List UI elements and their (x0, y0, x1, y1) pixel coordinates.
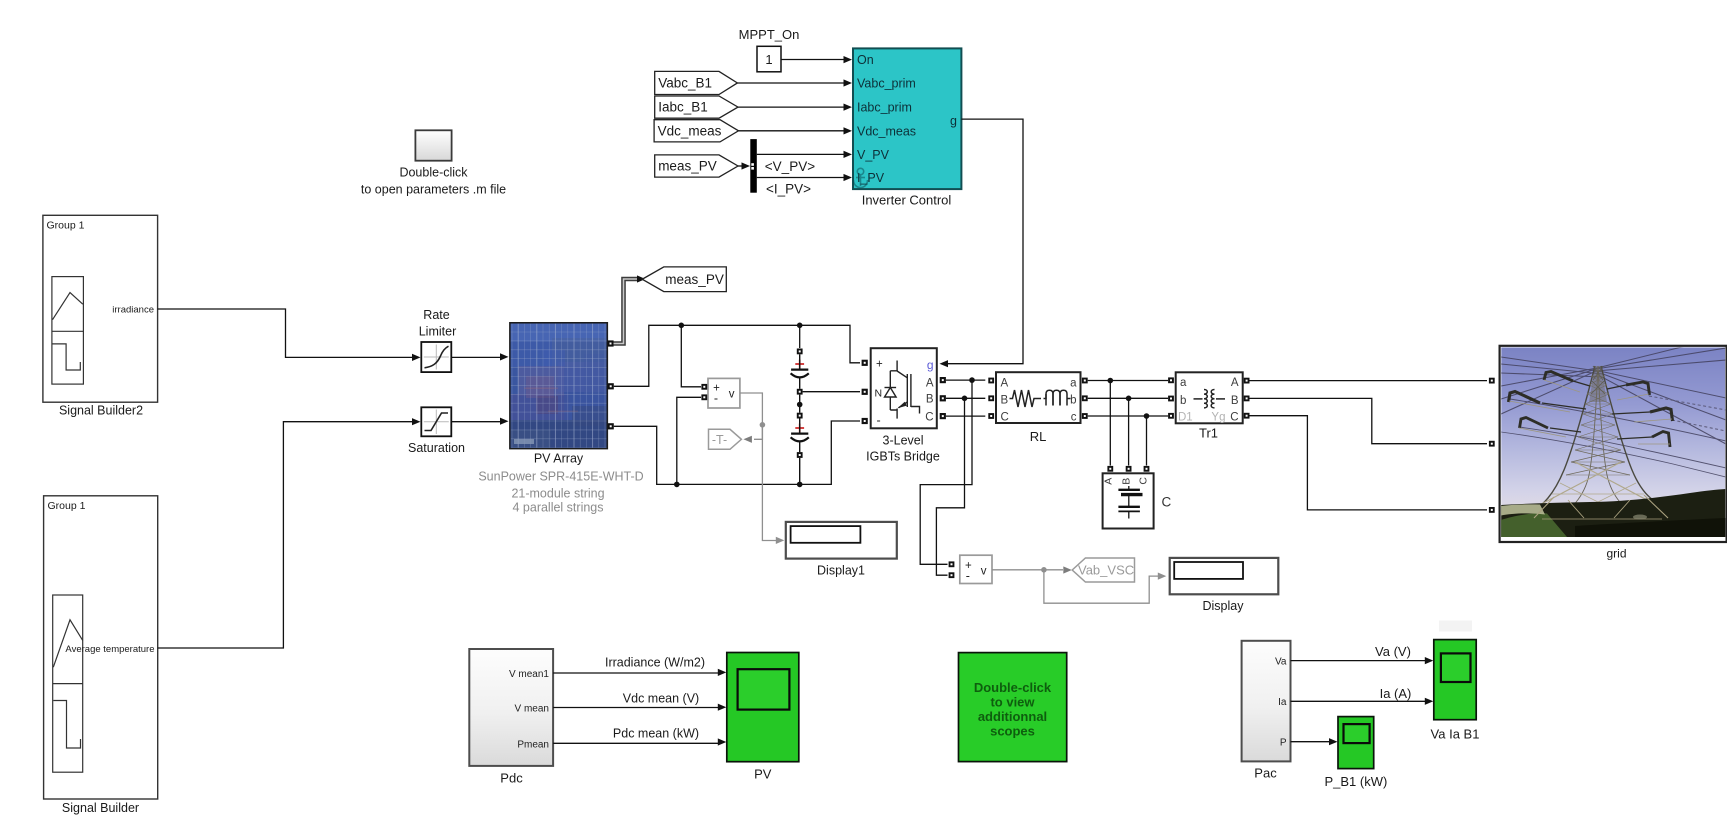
svg-text:Inverter Control: Inverter Control (862, 193, 952, 208)
svg-text:Display: Display (1203, 599, 1245, 613)
wire Vdc_meas to Vdc_meas input (739, 130, 845, 132)
faint annotation above Va Ia B1 (1439, 621, 1472, 632)
wire PV + to DC top rail (614, 325, 800, 386)
svg-text:Double-click: Double-click (974, 680, 1052, 695)
node junction phase A (969, 377, 975, 383)
svg-text:C: C (1001, 412, 1009, 424)
node junction between capacitors (799, 395, 801, 413)
block Rate Limiter (419, 308, 457, 372)
svg-text:A: A (1103, 478, 1115, 485)
svg-text:Rate: Rate (423, 308, 449, 322)
node junction a to C (1108, 378, 1114, 384)
svg-text:B: B (1001, 395, 1009, 407)
svg-text:grid: grid (1606, 547, 1626, 561)
block Voltage Measurement V_dc (708, 378, 740, 408)
from tag Iabc_B1 (655, 96, 738, 118)
block Pdc (subsystem) (469, 649, 553, 766)
svg-text:SunPower SPR-415E-WHT-D: SunPower SPR-415E-WHT-D (478, 470, 643, 484)
wire Pmean to PV scope (553, 742, 718, 744)
svg-text:MPPT_On: MPPT_On (739, 27, 800, 42)
svg-text:Pdc mean (kW): Pdc mean (kW) (613, 727, 699, 741)
wire Vabc_B1 to Vabc_prim (737, 82, 844, 84)
block Voltage Measurement Vab (960, 555, 992, 583)
wire Rate Limiter to PV Array (451, 356, 500, 358)
node gray junction VM2 (1041, 567, 1047, 573)
svg-text:D1: D1 (1178, 412, 1193, 424)
svg-text:P: P (1280, 738, 1287, 749)
wire junction to Voltage Measurement + (681, 325, 701, 387)
block PV scope (727, 653, 799, 762)
wire DC top rail to bridge + (800, 325, 860, 363)
wire junction to Voltage Measurement - (677, 397, 701, 484)
svg-text:Va Ia B1: Va Ia B1 (1431, 727, 1480, 742)
wire g: Inverter Control to IGBT bridge (948, 119, 1023, 364)
wire temperature: Signal Builder to Saturation (158, 422, 412, 648)
svg-text:Ia (A): Ia (A) (1380, 686, 1412, 701)
wire junction to Display (gray) (1044, 570, 1158, 603)
svg-text:scopes: scopes (990, 724, 1035, 739)
svg-text:a: a (1180, 377, 1187, 389)
svg-text:meas_PV: meas_PV (665, 272, 724, 287)
svg-text:-: - (714, 391, 718, 405)
svg-text:to open parameters .m file: to open parameters .m file (361, 183, 506, 197)
from tag Vabc_B1 (655, 71, 738, 94)
svg-text:B: B (1120, 478, 1132, 485)
node junction c to C (1144, 413, 1150, 419)
svg-text:v: v (981, 565, 987, 577)
svg-text:Vdc_meas: Vdc_meas (658, 123, 722, 138)
svg-text:Vabc_prim: Vabc_prim (857, 77, 916, 91)
svg-text:Vdc_meas: Vdc_meas (857, 125, 916, 139)
svg-text:B: B (1231, 395, 1239, 407)
node junction phase B (962, 396, 968, 402)
wire vector meas from PV Array to Goto meas_PV (thick) (614, 279, 638, 344)
svg-text:+: + (876, 359, 883, 371)
svg-text:Iabc_B1: Iabc_B1 (658, 100, 708, 115)
goto tag meas_PV (top) (642, 267, 726, 292)
svg-text:Ia: Ia (1278, 697, 1287, 708)
wire DC bottom rail to bridge - (800, 421, 860, 484)
block Pac (subsystem) (1242, 641, 1291, 762)
svg-text:Vabc_B1: Vabc_B1 (658, 76, 712, 91)
block PV Array (solar panel image) (510, 323, 607, 449)
svg-text:g: g (950, 114, 957, 128)
node gray junction (760, 422, 766, 428)
svg-text:C: C (925, 412, 933, 424)
svg-text:b: b (1070, 395, 1076, 407)
block Double-click to open parameters .m file (361, 130, 506, 196)
svg-text:PV: PV (754, 767, 772, 782)
svg-text:Va: Va (1275, 656, 1287, 667)
node junction top rail / capacitor (797, 323, 803, 329)
svg-text:Vdc mean (V): Vdc mean (V) (623, 692, 699, 706)
node PV m output pad (607, 340, 613, 346)
svg-text:On: On (857, 53, 874, 67)
goto tag Vab_VSC (1072, 558, 1134, 582)
svg-text:Irradiance (W/m2): Irradiance (W/m2) (605, 656, 705, 670)
capacitor C1 (upper DC link cap) (791, 349, 809, 395)
svg-text:-: - (877, 414, 881, 428)
wire Ia to scope (1291, 700, 1426, 702)
node PV - output pad (608, 423, 614, 429)
svg-text:to view: to view (990, 695, 1035, 710)
svg-text:Pac: Pac (1254, 766, 1277, 781)
node junction bottom rail / VM1 - (674, 482, 680, 488)
block Double-click to view additionnal scopes (959, 653, 1067, 762)
demux (bus selector bar) (750, 139, 757, 193)
block C (three-phase capacitor bank) (1103, 473, 1154, 528)
svg-text:V mean1: V mean1 (509, 669, 549, 680)
svg-text:Va (V): Va (V) (1375, 644, 1411, 659)
node junction top rail / VM1 + (679, 323, 685, 329)
goto tag -T- (709, 429, 742, 449)
block Signal Builder (44, 496, 158, 815)
svg-text:Double-click: Double-click (399, 166, 468, 180)
wire demux to V_PV (757, 153, 844, 155)
wire branch to goto -T- (754, 425, 762, 440)
constant block 1 (757, 46, 781, 72)
block RL (three-phase series RL branch) (996, 372, 1081, 423)
svg-text:RL: RL (1030, 429, 1047, 444)
wire phase c RL to Tr1 (1088, 415, 1168, 417)
svg-text:21-module string: 21-module string (511, 487, 604, 501)
svg-text:Display1: Display1 (817, 564, 865, 578)
svg-text:3-Level: 3-Level (883, 434, 924, 448)
svg-text:Saturation: Saturation (408, 441, 465, 455)
wire capacitor midpoint to bridge N (803, 391, 860, 393)
svg-text:V mean: V mean (515, 703, 549, 714)
svg-text:v: v (729, 389, 735, 401)
svg-text:<V_PV>: <V_PV> (765, 159, 815, 174)
svg-text:P_B1 (kW): P_B1 (kW) (1324, 774, 1387, 789)
wire phase b RL to Tr1 (1088, 397, 1168, 399)
wire constant to Inverter Control On (781, 59, 844, 61)
svg-text:C: C (1162, 495, 1172, 510)
wire demux to I_PV (757, 177, 844, 179)
block P_B1 scope (1338, 717, 1374, 769)
wire c to C block (1146, 416, 1148, 466)
svg-text:Limiter: Limiter (419, 325, 457, 339)
svg-text:Vab_VSC: Vab_VSC (1078, 563, 1134, 578)
svg-text:A: A (926, 377, 934, 389)
svg-text:meas_PV: meas_PV (658, 159, 717, 174)
svg-text:Signal Builder2: Signal Builder2 (59, 404, 143, 418)
svg-text:-: - (966, 569, 970, 583)
wire PV - to DC bottom rail (614, 426, 800, 484)
svg-text:4 parallel strings: 4 parallel strings (512, 501, 603, 515)
svg-text:C: C (1137, 477, 1149, 485)
block Va Ia B1 scope (1434, 640, 1476, 720)
wire phase A Tr1 to grid (1250, 380, 1488, 382)
wire Va to scope (1291, 660, 1426, 662)
svg-text:A: A (1231, 377, 1239, 389)
wire V mean1 to PV scope (553, 672, 718, 674)
svg-text:Pmean: Pmean (517, 739, 549, 750)
svg-text:Group 1: Group 1 (48, 500, 86, 512)
wire a to C block (1109, 381, 1111, 466)
svg-text:Signal Builder: Signal Builder (62, 801, 139, 815)
svg-text:IGBTs Bridge: IGBTs Bridge (866, 450, 940, 464)
block Signal Builder2 (43, 215, 158, 417)
wire P to P_B1 scope (1291, 741, 1330, 743)
block Inverter Control (subsystem) (853, 48, 961, 189)
svg-text:Group 1: Group 1 (47, 220, 85, 232)
node PV + output pad (608, 383, 614, 389)
block Tr1 (three-phase transformer) (1176, 372, 1243, 423)
svg-text:N: N (875, 388, 883, 400)
wire phase a RL to Tr1 (1088, 380, 1168, 382)
wire phase B Tr1 to grid (1250, 398, 1488, 443)
node junction bottom rail / capacitor (797, 482, 803, 488)
svg-text:irradiance: irradiance (112, 305, 154, 316)
svg-text:Yg: Yg (1211, 412, 1225, 424)
block 3-Level IGBTs Bridge (871, 348, 937, 428)
svg-text:c: c (1071, 412, 1077, 424)
block Display1 (786, 522, 897, 559)
wire phase C bridge to RL (946, 415, 985, 417)
wire VM2 v to goto Vab_VSC (gray) (992, 569, 1063, 571)
wire Iabc_B1 to Iabc_prim (738, 106, 844, 108)
svg-text:V_PV: V_PV (857, 148, 890, 162)
svg-text:Pdc: Pdc (500, 771, 523, 786)
wire VM1 v to Display1 (gray) (740, 393, 776, 541)
svg-text:b: b (1180, 395, 1186, 407)
svg-text:additionnal: additionnal (978, 709, 1047, 724)
block Display (1170, 558, 1279, 594)
svg-text:g: g (927, 358, 934, 372)
from tag meas_PV (left) (655, 155, 738, 177)
wire V mean to PV scope (553, 707, 718, 709)
block grid (transmission tower photo) (1500, 336, 1727, 542)
svg-text:C: C (1230, 412, 1238, 424)
svg-text:PV Array: PV Array (534, 452, 584, 466)
svg-text:B: B (926, 394, 934, 406)
svg-text:-T-: -T- (712, 433, 727, 447)
wire phase B bridge to RL (946, 397, 985, 399)
svg-text:Tr1: Tr1 (1199, 426, 1218, 441)
wire Saturation to PV Array (451, 421, 500, 423)
wire phase C Tr1 to grid (1250, 416, 1488, 510)
wire b to C block (1128, 398, 1130, 465)
svg-text:a: a (1070, 378, 1077, 390)
wire phase A bridge to RL (946, 379, 985, 381)
svg-text:Average temperature: Average temperature (65, 644, 154, 655)
svg-text:<I_PV>: <I_PV> (766, 181, 811, 196)
svg-text:Iabc_prim: Iabc_prim (857, 101, 912, 115)
capacitor C2 (lower DC link cap) (791, 413, 809, 485)
wire meas_PV to demux (738, 165, 742, 167)
wire phase B junction to VM2 - (936, 398, 964, 575)
from tag Vdc_meas (654, 120, 738, 142)
node junction b to C (1126, 396, 1132, 402)
block Saturation (408, 407, 465, 455)
wire irradiance: Signal Builder2 to Rate Limiter (158, 309, 412, 357)
svg-text:1: 1 (765, 52, 772, 67)
svg-text:A: A (1001, 378, 1009, 390)
wire phase A junction to VM2 + (920, 380, 972, 564)
